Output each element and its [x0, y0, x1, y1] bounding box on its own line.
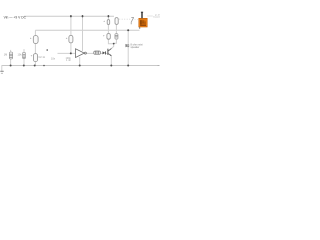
svg-text:+: +: [31, 53, 33, 57]
svg-text:+: +: [30, 36, 32, 40]
svg-text:10n: 10n: [51, 58, 56, 61]
svg-text:C2 1n: C2 1n: [39, 56, 46, 59]
svg-text:speaker: speaker: [131, 46, 140, 49]
svg-text:+: +: [103, 33, 105, 37]
svg-text:1 nF: 1 nF: [66, 59, 71, 62]
svg-text:buzzer: buzzer: [154, 16, 161, 19]
svg-text:Vin — +9 V DC: Vin — +9 V DC: [4, 16, 27, 20]
svg-text:1M: 1M: [4, 53, 7, 56]
svg-text:+: +: [103, 19, 105, 23]
svg-text:+: +: [66, 36, 68, 40]
